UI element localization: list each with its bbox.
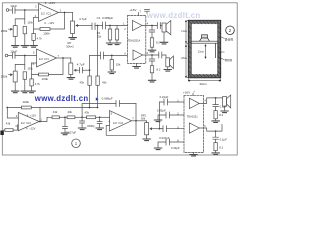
ground [61, 133, 68, 135]
capacitor 3300p [97, 117, 102, 127]
node [109, 25, 111, 27]
dimension line 14cm [185, 20, 188, 43]
wiper arrow [76, 25, 79, 27]
wire grid chain ch2 [15, 56, 25, 72]
ground [148, 50, 155, 52]
ground [160, 42, 167, 44]
svg-text:+: + [40, 6, 42, 10]
capacitor 10uF (ch2 input) [13, 53, 16, 59]
svg-text:−12V: −12V [29, 127, 36, 131]
node [89, 107, 91, 109]
wire mixer tap ch1 [97, 26, 99, 77]
wire [163, 32, 165, 42]
wire pin6 loop [106, 121, 136, 136]
svg-text:8.2: 8.2 [157, 67, 161, 71]
wire [31, 86, 33, 91]
svg-text:倒相管: 倒相管 [225, 58, 233, 62]
wire output U3a [199, 98, 222, 104]
ground [190, 155, 197, 156]
node [151, 25, 153, 27]
node [64, 12, 66, 14]
svg-text:+16V: +16V [129, 8, 136, 12]
op-amp U1a triangle [39, 4, 59, 22]
resistor 100k feedback ch1 [40, 28, 50, 31]
wire pin2 U2a [7, 108, 18, 119]
op-amp U2b triangle [110, 111, 132, 132]
enclosure outer box [188, 20, 220, 78]
speaker ch1 [162, 23, 166, 32]
wire [70, 75, 72, 78]
capacitor 0.1uF (zobel1) [213, 98, 219, 111]
svg-text:43k: 43k [6, 122, 11, 126]
wire [135, 104, 137, 121]
wire [59, 116, 67, 118]
resistor 43k (ch2 to mixer) [88, 76, 91, 85]
ground [67, 78, 74, 80]
resistor 43k (LPF b) [67, 116, 75, 119]
capacitor 0.22uF [164, 99, 168, 105]
ground [143, 139, 150, 141]
svg-text:TDA1521: TDA1521 [187, 115, 199, 119]
dimension line 28cm [185, 43, 188, 78]
wire [224, 106, 226, 111]
wire [4, 129, 5, 131]
svg-text:4.7μF: 4.7μF [79, 17, 87, 21]
svg-text:43k: 43k [102, 80, 107, 84]
svg-text:4.7k: 4.7k [35, 82, 41, 86]
wire [15, 9, 39, 11]
node [215, 130, 217, 132]
wire [24, 34, 26, 45]
svg-text:0.047μF: 0.047μF [159, 136, 170, 140]
capacitor C2 [101, 52, 104, 59]
wire feedback ch2 [32, 58, 63, 75]
wire pin2 U3 [158, 115, 184, 120]
capacitor C1 0.088uF [103, 22, 106, 29]
resistor 100k grid ch1 [23, 26, 26, 34]
hatch speckle [189, 21, 221, 77]
wire [116, 26, 118, 43]
node [89, 69, 91, 71]
enclosure shelf divider [191, 41, 217, 43]
resistor 100k grid ch2 [23, 72, 26, 80]
resistor 43k (sub input) [5, 129, 13, 132]
resistor 100k feedback ch2 [39, 73, 49, 76]
wire [15, 55, 37, 57]
wire [104, 54, 128, 56]
wire SK feedback cap [82, 104, 136, 118]
ground [108, 72, 115, 74]
svg-text:1/2 IC2: 1/2 IC2 [113, 121, 124, 125]
svg-text:30cm: 30cm [199, 82, 207, 86]
svg-text:C1 0.088μF: C1 0.088μF [97, 16, 114, 20]
svg-text:15k: 15k [116, 62, 121, 66]
wire pin6 [32, 62, 37, 64]
ground [96, 128, 103, 130]
ground [212, 121, 219, 123]
resistor 8.2 (zobel ch2) [150, 66, 153, 73]
svg-text:www.dzdlt.cn: www.dzdlt.cn [146, 11, 201, 20]
wire [159, 102, 161, 129]
svg-text:1/2 IC1: 1/2 IC1 [39, 57, 50, 61]
wire output U3b [199, 125, 222, 132]
node [97, 107, 99, 109]
wiper arrow [9, 28, 13, 30]
wire [83, 69, 90, 71]
woofer driver on shelf [202, 35, 208, 38]
wire [79, 25, 93, 27]
ground [21, 46, 28, 48]
capacitor 0.027uF [63, 117, 68, 132]
wire [14, 82, 16, 91]
svg-text:4.7μF: 4.7μF [77, 62, 85, 66]
wire output ch2 [57, 57, 71, 59]
node [24, 55, 26, 57]
wire output U2a [39, 117, 52, 121]
potentiometer RP2 wire [146, 121, 148, 123]
ground [69, 38, 76, 40]
ground [164, 70, 171, 72]
wire ch2 to C2 [90, 55, 101, 70]
wire [97, 85, 99, 107]
ground [113, 43, 120, 45]
IC U2 TDA1521A dashed box [128, 16, 146, 64]
capacitor (LPF shunt b) [80, 117, 85, 127]
svg-text:14cm: 14cm [181, 31, 187, 33]
svg-text:0.22μF: 0.22μF [160, 95, 169, 99]
wire [33, 40, 35, 45]
capacitor 0.047uF [163, 126, 167, 132]
node [62, 57, 64, 59]
potentiometer 250k ch2 [13, 71, 17, 82]
wire grid chain ch1 [15, 10, 25, 26]
resistor R2 15k [110, 60, 113, 71]
svg-text:1/2 IC2: 1/2 IC2 [21, 121, 32, 125]
wire [151, 47, 153, 50]
wire pin5 ground U3 [193, 153, 195, 155]
svg-text:100k: 100k [42, 77, 49, 81]
svg-text:0.1μF: 0.1μF [220, 104, 227, 108]
ground [12, 46, 19, 48]
ground [212, 153, 219, 155]
volume pot RP (ch2) wire [70, 58, 72, 63]
svg-text:TDA1521A: TDA1521A [128, 39, 141, 43]
node [64, 116, 66, 118]
op-amp U1b triangle [37, 49, 57, 67]
svg-text:−12V: −12V [48, 21, 55, 25]
wire output U2b [132, 120, 147, 122]
ground [79, 128, 86, 130]
svg-text:250k: 250k [1, 29, 8, 33]
svg-text:50k×2: 50k×2 [66, 45, 74, 49]
svg-text:3300p: 3300p [87, 124, 95, 128]
wire pin3 ground U2 [136, 63, 138, 66]
wire [95, 25, 103, 27]
wire [215, 151, 217, 153]
svg-text:100k: 100k [27, 67, 33, 70]
wire [39, 108, 41, 122]
svg-text:+12V: +12V [30, 113, 37, 117]
svg-text:1: 1 [75, 141, 78, 146]
port tube [216, 43, 218, 58]
capacitor 0.33uF (pin2) [166, 112, 170, 118]
svg-text:5cm: 5cm [220, 51, 225, 54]
wire [9, 9, 12, 11]
ground [154, 120, 161, 122]
ground [30, 46, 37, 48]
leader line (absorber label) [220, 36, 225, 38]
speaker enclosure (2) walls hatch [188, 20, 220, 78]
potentiometer RP2 50k [145, 123, 149, 135]
svg-text:1/2 IC1: 1/2 IC1 [41, 11, 52, 15]
svg-text:43k: 43k [80, 80, 85, 84]
resistor 43k (ch1 to mixer) [96, 76, 99, 85]
resistor 4.7k (ch1) [32, 33, 35, 40]
node [159, 128, 161, 130]
svg-text:100k: 100k [27, 22, 33, 25]
op-amp U3a triangle [189, 98, 199, 108]
svg-text:www.dzdlt.cn: www.dzdlt.cn [34, 94, 89, 103]
capacitor 0.33uF (pin8) [166, 139, 170, 145]
node [151, 54, 153, 56]
wire pin1 U3 [160, 101, 185, 103]
op-amp U2-2 triangle [133, 50, 143, 60]
IC U3 TDA1521 dashed box [184, 95, 203, 152]
node [111, 55, 113, 57]
wire [75, 116, 87, 118]
wire [13, 125, 18, 130]
wire [77, 69, 80, 71]
input terminal J2 [5, 54, 8, 57]
dimension line 30cm [188, 79, 220, 82]
node [99, 116, 101, 118]
svg-text:2: 2 [229, 28, 232, 33]
wire [24, 79, 26, 90]
wire [31, 63, 33, 79]
ground [21, 91, 28, 93]
wire output U2-1 [142, 25, 162, 27]
capacitor (zobel ch1) [149, 26, 155, 38]
wire [106, 25, 128, 27]
wiper arrow [150, 128, 152, 130]
op-amp U3b triangle [189, 123, 199, 133]
wire [14, 37, 16, 46]
wire [167, 67, 169, 69]
node [39, 121, 41, 123]
wire +16V supply [138, 13, 140, 16]
svg-text:100k: 100k [43, 31, 50, 35]
svg-text:+12V: +12V [48, 1, 55, 5]
capacitor 0.068uF (SK feedback) [116, 101, 120, 107]
input terminal J1 [6, 9, 9, 12]
wire pin2 [34, 17, 39, 19]
wiper arrow [9, 74, 13, 76]
svg-text:8.2: 8.2 [219, 145, 223, 149]
speaker ch2 [166, 58, 170, 67]
capacitor 4.7uF ch1 [92, 23, 95, 30]
resistor 8.2 (zobel1) [214, 111, 217, 119]
wire pin9 U3 [160, 128, 185, 130]
ground [12, 91, 19, 93]
svg-text:28cm: 28cm [181, 58, 187, 60]
wire mixer bus [7, 107, 97, 109]
svg-text:0.33μF: 0.33μF [157, 108, 166, 112]
resistor 4.7k (ch2) [30, 79, 33, 86]
svg-text:43k: 43k [85, 111, 90, 115]
capacitor 4.7uF ch2 [80, 67, 83, 73]
resistor 43k (LPF c) [87, 116, 96, 119]
leader line (port label) [220, 58, 225, 61]
node [215, 97, 217, 99]
wire [146, 135, 148, 139]
potentiometer RP 50kx2 (ch2) [69, 63, 73, 75]
resistor 100k (mixer feedback) [21, 106, 31, 109]
op-amp U2-1 triangle [133, 21, 143, 31]
resistor 43k (LPF a) [52, 116, 59, 119]
svg-text:50k: 50k [141, 117, 146, 121]
svg-text:43k: 43k [67, 110, 72, 114]
svg-text:0.1μF: 0.1μF [220, 137, 227, 141]
resistor 8.2 (zobel ch1) [150, 38, 153, 47]
wire [33, 18, 35, 34]
svg-text:15k: 15k [97, 35, 102, 39]
svg-text:R1: R1 [97, 31, 101, 35]
potentiometer RP 50kx2 (ch1) [71, 21, 75, 34]
ground [133, 67, 140, 69]
callout number 2 circle [226, 26, 235, 35]
resistor R1 15k [108, 29, 111, 40]
wire feedback ch1 [34, 13, 65, 30]
capacitor (supply decoupling) [145, 10, 150, 14]
node A [24, 9, 26, 11]
ground [154, 148, 161, 150]
svg-text:RP: RP [68, 41, 72, 45]
wire [111, 55, 113, 71]
wire pin8 U3 [158, 142, 184, 148]
wire output U2-2 [143, 55, 167, 58]
ground [221, 111, 228, 113]
capacitor (zobel ch2) [149, 55, 155, 66]
volume pot RP (ch1) wire [72, 13, 74, 22]
wire [72, 34, 74, 38]
node [135, 120, 137, 122]
svg-text:0.027μF: 0.027μF [66, 130, 76, 134]
border frame [2, 3, 237, 155]
wire [152, 128, 163, 130]
node [97, 25, 99, 27]
capacitor (output coupling ch2) [159, 52, 162, 58]
svg-text:250k: 250k [1, 75, 8, 79]
wire output ch1 [59, 12, 73, 14]
potentiometer 250k ch1 [13, 26, 17, 37]
svg-text:13cm: 13cm [198, 50, 204, 53]
wire [215, 119, 217, 121]
svg-text:10μF: 10μF [10, 4, 17, 8]
capacitor (output coupling ch1) [157, 23, 160, 29]
svg-text:吸音棉: 吸音棉 [225, 37, 234, 41]
wire +16V supply [192, 93, 194, 95]
op-amp U2a triangle [18, 112, 39, 130]
svg-text:4.7k: 4.7k [37, 37, 43, 41]
callout number 1 circle [72, 139, 81, 148]
wire [109, 26, 111, 43]
wire [96, 116, 110, 118]
svg-text:8.2: 8.2 [156, 41, 160, 45]
svg-text:8.2: 8.2 [219, 113, 223, 117]
ground [28, 91, 35, 93]
capacitor 0.1uF (zobel2) [213, 131, 219, 142]
enclosure inner box [191, 23, 217, 75]
node [6, 107, 8, 109]
ground [106, 43, 113, 45]
wire [8, 55, 12, 57]
svg-text:43k: 43k [53, 110, 58, 114]
input terminal (sub in) [0, 131, 3, 136]
svg-text:0.33μF: 0.33μF [171, 146, 180, 150]
resistor (TDA pin2) [115, 29, 118, 40]
svg-text:10μF: 10μF [10, 50, 17, 54]
svg-text:0.068μF: 0.068μF [102, 96, 113, 100]
resistor 8.2 (zobel2) [214, 143, 217, 151]
ground [148, 80, 155, 82]
wiper arrow [74, 69, 77, 71]
svg-text:+16V: +16V [183, 91, 190, 95]
wire [89, 85, 91, 107]
wire mixer tap ch2 [89, 70, 91, 76]
node [81, 116, 83, 118]
wire [151, 73, 153, 80]
capacitor 10uF (ch1 input) [13, 8, 16, 14]
svg-text:100k: 100k [22, 100, 29, 104]
dimension line 13cm [205, 45, 206, 59]
speaker SB1 [223, 97, 227, 107]
